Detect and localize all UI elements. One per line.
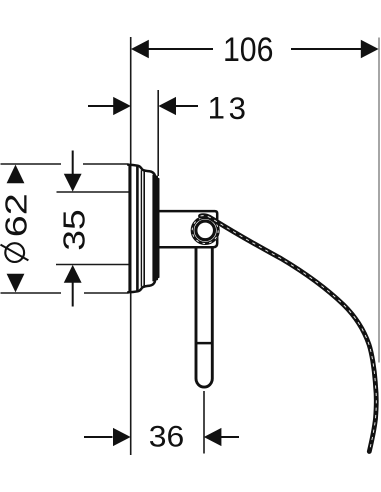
rod (paper holder bar) <box>196 248 212 387</box>
flange front band (dome front with step) <box>153 175 159 281</box>
extension line for 36 right (rod axis x=204) <box>203 391 205 454</box>
knob coil dashes <box>192 217 218 243</box>
dimension line 13 <box>88 105 198 107</box>
svg-text:106: 106 <box>223 31 274 69</box>
arrow 106 left <box>131 40 149 58</box>
svg-text:3: 3 <box>229 91 246 126</box>
extension line left (wall plane x=130.5) <box>130 37 132 455</box>
flange thin ring 1 <box>140 170 142 286</box>
arrow 106 right <box>361 40 379 58</box>
svg-text:36: 36 <box>149 420 185 453</box>
arrow 36 left <box>113 428 131 446</box>
extension line 35 top (y=192) <box>57 191 129 193</box>
svg-text:62: 62 <box>0 193 34 237</box>
dimension 62: arrow top <box>7 165 25 184</box>
svg-text:35: 35 <box>56 209 91 251</box>
knob inner circle <box>196 221 215 240</box>
flange thin ring 2 <box>143 171 145 285</box>
dimension 35: arrow top (pointing down) <box>64 174 82 192</box>
dimension 35: arrow bottom (pointing up) <box>64 265 82 283</box>
dimension 35: tails <box>72 151 74 307</box>
extension line for 13 (flange front x=158.2) <box>157 90 159 176</box>
rod joint line <box>196 342 212 345</box>
arrow 13 right <box>158 97 176 115</box>
dimension 62: arrow bottom <box>7 274 25 293</box>
knob coil ring <box>192 217 218 243</box>
dimension line 106 <box>147 48 362 50</box>
arrow 36 right <box>204 428 222 446</box>
arm of holder <box>158 211 218 247</box>
cord white dashes <box>201 216 377 452</box>
knob white backing <box>191 216 220 245</box>
flange left face <box>128 164 131 292</box>
arrow 13 left <box>113 97 131 115</box>
cord (spring cable) <box>201 216 377 452</box>
extension line right (x=379 for 106) <box>378 38 380 363</box>
extension line top of flange (y=164) <box>1 163 129 165</box>
extension line bottom of flange (y=293) <box>1 292 129 294</box>
flange top edge <box>128 165 155 178</box>
diameter symbol <box>1 243 29 262</box>
dimension line 36 <box>84 436 239 438</box>
svg-text:1: 1 <box>208 90 225 125</box>
flange bottom edge <box>128 280 155 293</box>
extension line 35 bottom (y=264.5) <box>56 264 129 266</box>
flange ring line <box>136 167 139 291</box>
